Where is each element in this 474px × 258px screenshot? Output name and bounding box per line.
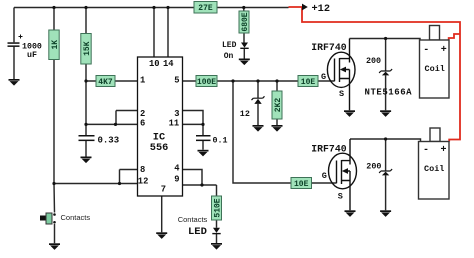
coil 1 [420,26,450,99]
wire pin 12 contacts node [54,183,138,185]
svg-text:+: + [441,45,447,56]
wire drain rail 1 to coil 1 [350,39,421,41]
svg-text:10E: 10E [294,180,309,189]
ground for pin 7 [156,232,167,239]
resistor 4K7 [96,76,115,87]
wire 2K2 branch [276,81,278,125]
svg-text:11: 11 [169,118,180,128]
resistor 680E [239,11,250,33]
wire top rail [14,7,289,9]
ground for Q2 source [345,210,356,217]
wire 1K chain [53,8,55,184]
svg-text:-: - [423,145,429,156]
svg-text:100E: 100E [197,78,216,87]
svg-text:7: 7 [161,185,166,195]
wire zener 200 no1 [385,39,387,111]
svg-text:-: - [423,45,429,56]
svg-text:12: 12 [240,109,250,119]
ground for LED On [239,59,250,66]
zener diode 200 NTE5166A first [365,56,413,97]
svg-text:556: 556 [150,142,169,154]
svg-text:0.33: 0.33 [98,136,120,146]
ground for 2K2 [272,125,283,132]
ground for 0.33 [81,157,92,164]
contacts LED diode [212,228,220,234]
ground for zener 200 first [380,110,391,117]
svg-text:S: S [339,89,344,99]
ground for zener 12 [253,125,264,132]
ground for 0.1 [198,150,209,157]
svg-text:On: On [224,52,234,61]
resistor 510E [212,196,223,220]
wire zener 200 no2 [385,139,387,210]
ground for zener 200 second [380,210,391,217]
wire pins 3 11 to 0.1 cap [183,111,204,150]
capacitor 0.1 [196,135,228,146]
svg-text:680E: 680E [241,12,250,31]
wire pin5 100E node [183,80,335,82]
IC U1 556 [138,57,183,196]
ground for switch [49,243,60,250]
svg-text:200: 200 [366,161,381,171]
svg-text:4: 4 [174,164,180,174]
svg-text:1: 1 [140,76,145,86]
svg-text:4K7: 4K7 [98,78,113,87]
ground for contacts LED [211,243,222,250]
svg-text:14: 14 [163,59,174,69]
zener diode 12 [240,96,265,119]
node +12 arrow [302,4,308,11]
svg-text:2K2: 2K2 [274,98,283,113]
svg-text:Contacts: Contacts [178,215,208,224]
svg-text:9: 9 [174,175,179,185]
wire 15K chain [85,8,87,157]
wire drain rail 2 to coil 2 [350,139,421,142]
svg-text:G: G [321,72,326,82]
svg-text:LED: LED [188,226,207,238]
svg-text:Coil: Coil [425,64,445,74]
svg-text:S: S [338,192,343,202]
resistor 10E first [298,76,318,87]
svg-text:IRF740: IRF740 [311,42,346,53]
svg-text:NTE5166A: NTE5166A [365,87,413,97]
wire pins 4 9 to 510E [183,170,217,244]
svg-text:15K: 15K [83,41,92,56]
capacitor 0.33 [79,135,120,146]
wire pin 8 step [120,170,138,184]
svg-text:6: 6 [140,118,145,128]
svg-text:+12: +12 [312,3,331,15]
resistor 1K [49,30,60,60]
capacitor C1 1000uF [8,35,42,61]
wire pins 2 and 6 [86,111,138,125]
wire contacts switch chain [53,184,56,244]
svg-text:G: G [322,171,327,181]
node junction dots [52,6,387,224]
svg-text:IRF740: IRF740 [311,144,346,155]
svg-text:LED: LED [222,41,237,50]
coil 2 [419,128,450,199]
svg-text:27E: 27E [198,4,213,13]
svg-text:12: 12 [138,176,149,186]
ground for Q1 source [344,110,355,117]
svg-text:0.1: 0.1 [213,136,228,146]
resistor 27E [194,2,217,14]
svg-text:200: 200 [366,56,381,66]
wire 4K7 link to pin 1 [86,80,138,82]
resistor 2K2 [272,91,283,119]
resistor 10E second [291,178,312,189]
ground for C1 [9,79,20,86]
wire IC top stubs pins 10 14 [154,8,168,58]
wire pin 7 ground [161,196,163,232]
contacts switch [40,213,52,224]
svg-text:Contacts: Contacts [61,213,91,222]
resistor 100E [196,76,217,87]
wire 680E LED-On chain [243,8,246,59]
transistor Q1 IRF740 [311,39,355,111]
wire loop to second 10E [233,81,337,183]
svg-text:uF: uF [27,51,37,60]
LED On diode [240,43,248,50]
svg-text:8: 8 [140,165,145,175]
svg-text:1K: 1K [51,40,60,50]
transistor Q2 IRF740 [311,139,356,210]
svg-text:5: 5 [174,76,179,86]
svg-text:Coil: Coil [424,164,444,174]
wire zener 12 branch [257,81,259,125]
svg-text:+: + [441,145,447,156]
svg-text:510E: 510E [213,198,222,217]
wire +12 red supply [289,7,461,142]
wire left capacitor branch [13,8,15,80]
zener diode 200 second [366,161,392,175]
svg-text:10: 10 [149,59,160,69]
resistor 15K [81,34,92,65]
svg-text:10E: 10E [301,78,316,87]
